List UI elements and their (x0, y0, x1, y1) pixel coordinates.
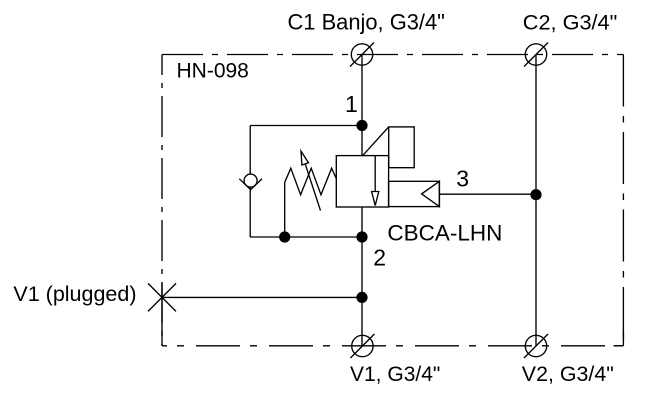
svg-text:3: 3 (456, 166, 469, 192)
spring adjuster arrow (301, 151, 321, 211)
port C1 (350, 43, 374, 67)
port C2 (524, 43, 548, 67)
svg-text:V2, G3/4": V2, G3/4" (522, 362, 614, 386)
svg-text:V1 (plugged): V1 (plugged) (13, 282, 136, 306)
junction dot spring branch (279, 231, 290, 242)
junction dot V1 line (356, 292, 367, 303)
wire spring branch (284, 182, 286, 237)
port V1 (350, 334, 374, 358)
svg-text:C1 Banjo, G3/4": C1 Banjo, G3/4" (288, 9, 445, 34)
valve CBCA-LHN body (336, 156, 388, 207)
pilot box (389, 181, 440, 206)
svg-text:2: 2 (373, 244, 386, 270)
port V2 (524, 334, 548, 358)
node 3 junction dot (530, 189, 541, 200)
node 2 junction dot (356, 231, 367, 242)
wire V1 plugged to node below 2 (162, 296, 362, 298)
wire valve bottom to V1 port (node 2) (361, 207, 363, 347)
svg-text:1: 1 (345, 91, 358, 117)
wire C2 port to V2 port (535, 55, 537, 347)
svg-text:C2, G3/4": C2, G3/4" (523, 9, 618, 34)
svg-text:V1, G3/4": V1, G3/4" (350, 363, 440, 386)
check valve CV1 (239, 174, 262, 190)
wire pilot line to node 3 (439, 193, 536, 195)
wire check valve branch (249, 126, 251, 238)
wire top rail node1 to check branch (250, 125, 362, 127)
drain flag (363, 127, 414, 168)
svg-text:CBCA-LHN: CBCA-LHN (387, 220, 502, 245)
adjustable spring (285, 168, 337, 195)
plugged port V1 X symbol (148, 283, 176, 311)
enclosure border HN-098 manifold (162, 55, 623, 346)
wire C1 port to valve top (node 1) (361, 55, 363, 156)
node 1 junction dot (356, 120, 367, 131)
wire bottom rail (250, 236, 362, 238)
relief flow arrow (372, 156, 379, 206)
svg-text:HN-098: HN-098 (177, 60, 249, 83)
